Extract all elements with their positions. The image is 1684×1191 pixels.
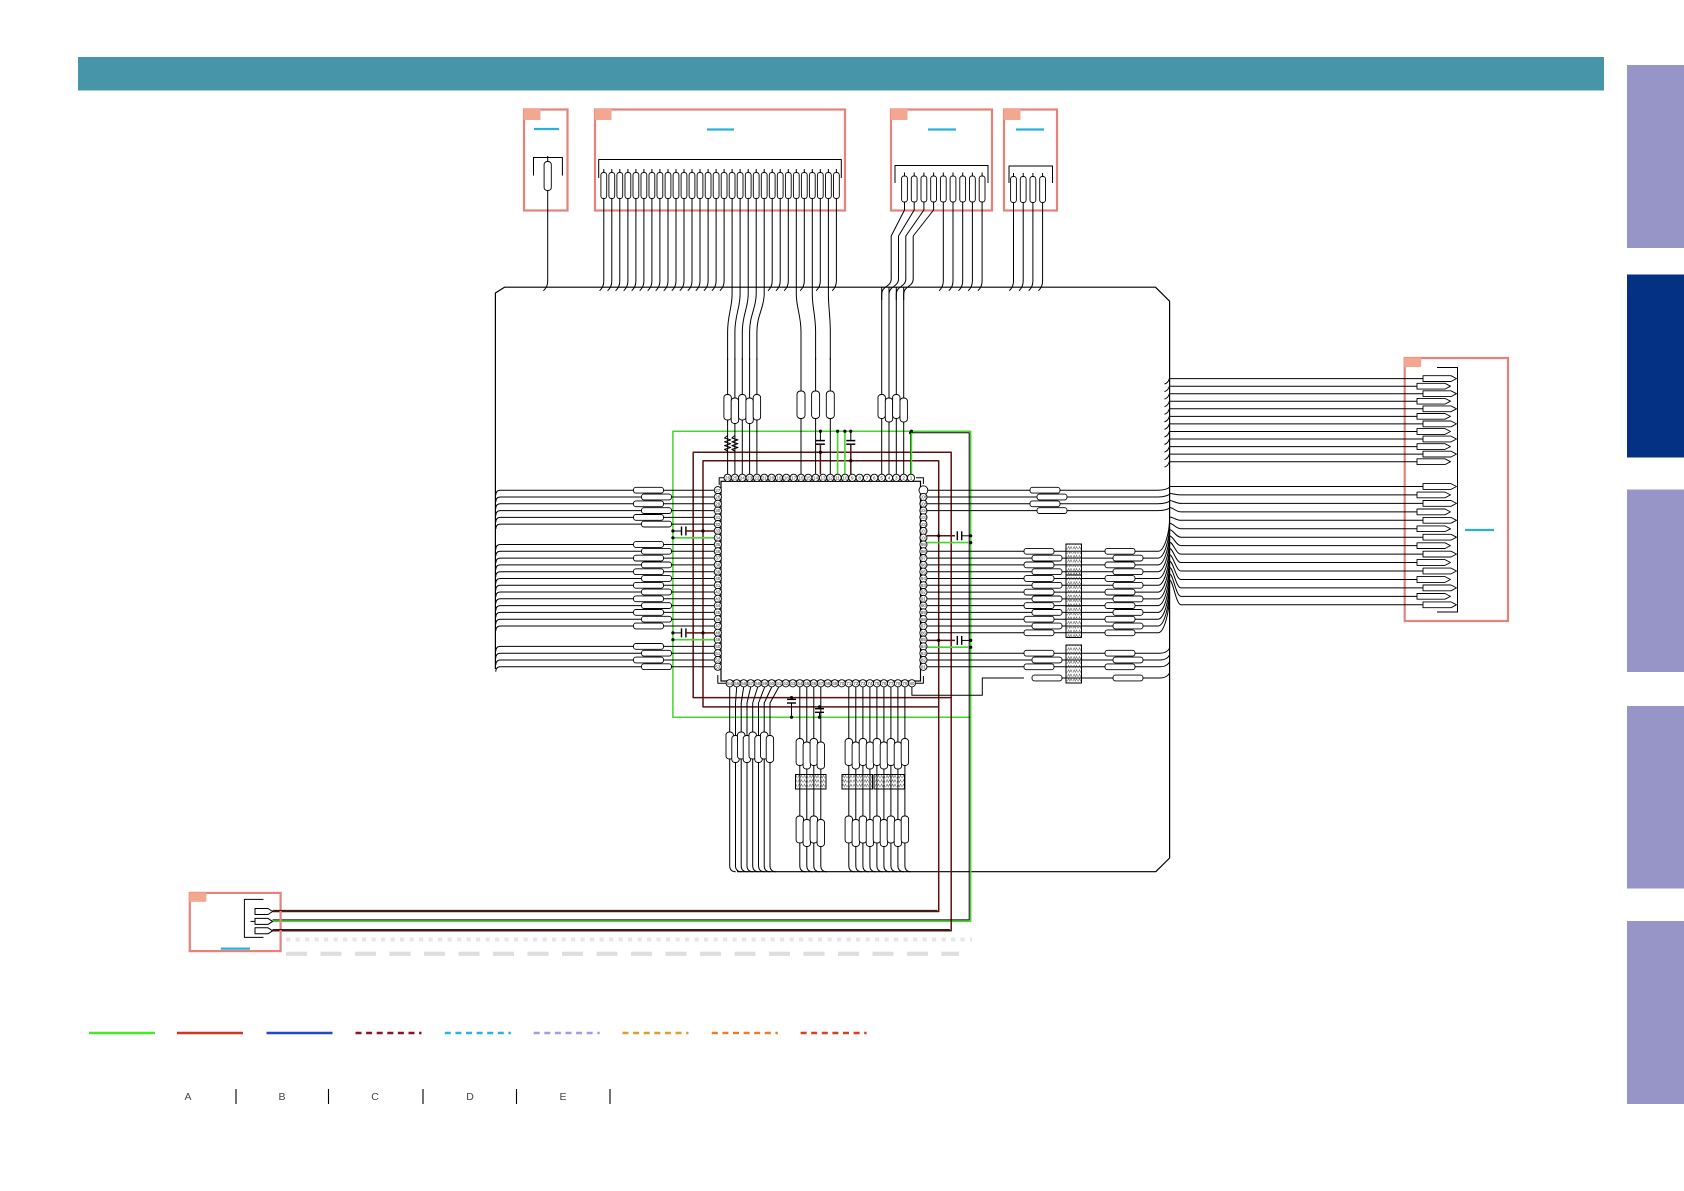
svg-text:82: 82 [921,658,927,663]
IC U1 corner marks [718,478,924,684]
svg-text:94: 94 [921,576,927,581]
connector CN3 box [891,110,992,211]
svg-text:21: 21 [762,475,768,480]
svg-text:70: 70 [839,681,845,686]
svg-text:55: 55 [734,681,740,686]
svg-text:D: D [466,1091,474,1103]
svg-text:22: 22 [754,475,760,480]
svg-text:37: 37 [715,556,721,561]
svg-text:86: 86 [921,630,927,635]
svg-text:99: 99 [921,542,927,547]
connector CN2 bracket [599,160,842,179]
wires IC right top group with resistors [927,487,1170,514]
wires IC bottom group D2 with resistors and network [796,687,827,872]
svg-text:46: 46 [715,617,721,622]
svg-text:53: 53 [715,664,721,669]
svg-text:102: 102 [920,522,928,527]
svg-text:49: 49 [715,637,721,642]
svg-text:72: 72 [853,681,859,686]
connector CN1 box [524,110,568,211]
svg-text:87: 87 [921,624,927,629]
svg-text:50: 50 [715,644,721,649]
IC U1 pin circles bottom [726,680,915,687]
capacitor C2 top [846,430,855,475]
wire CN1 to board [543,191,547,291]
connector CN1 link [534,128,559,130]
svg-text:18: 18 [784,475,790,480]
svg-text:47: 47 [715,624,721,629]
svg-text:40: 40 [715,576,721,581]
svg-text:30: 30 [715,508,721,513]
svg-text:63: 63 [790,681,796,686]
capacitor C4 left [671,628,714,637]
svg-text:2: 2 [902,475,905,480]
svg-text:45: 45 [715,610,721,615]
wires CN2 to board edge [600,199,837,361]
svg-text:33: 33 [715,529,721,534]
svg-text:13: 13 [820,475,826,480]
svg-text:1: 1 [910,475,913,480]
legend line styles [89,1032,867,1034]
resistors R-top group B [878,287,907,474]
svg-text:74: 74 [867,681,873,686]
svg-text:83: 83 [921,651,927,656]
svg-text:24: 24 [740,475,746,480]
svg-text:26: 26 [725,475,731,480]
sidebar tab 3 [1627,490,1684,673]
svg-text:92: 92 [921,590,927,595]
wires IC right lower group [912,648,1170,695]
svg-text:34: 34 [715,535,721,540]
svg-text:95: 95 [921,569,927,574]
resistors left bank L3 and wires [496,644,714,672]
svg-text:58: 58 [755,681,761,686]
capacitor C3 left [671,527,714,536]
svg-text:14: 14 [813,475,819,480]
net VSS maroon loop B [273,452,952,931]
svg-text:97: 97 [921,556,927,561]
sidebar tab 2 active [1627,275,1684,458]
svg-text:19: 19 [776,475,782,480]
green stubs to IC pins left [671,536,714,641]
connector CN5 link [1465,529,1494,531]
net VCC maroon loop A [273,461,939,912]
svg-text:16: 16 [798,475,804,480]
resistors R-top singles [797,358,834,474]
connector CN3 bracket [895,166,988,184]
svg-text:23: 23 [747,475,753,480]
svg-text:9: 9 [851,475,854,480]
svg-text:98: 98 [921,549,927,554]
svg-text:10: 10 [842,475,848,480]
svg-text:81: 81 [921,664,927,669]
black companions CN6 maroon wires [273,910,950,929]
wires IC right mid group with resistors [927,517,1170,636]
svg-text:64: 64 [797,681,803,686]
connector CN1 symbol [534,158,563,176]
svg-text:54: 54 [727,681,733,686]
svg-text:4: 4 [888,475,891,480]
svg-text:78: 78 [895,681,901,686]
svg-text:103: 103 [920,515,928,520]
svg-text:80: 80 [909,681,915,686]
svg-text:84: 84 [921,644,927,649]
net VDD green loop [273,431,971,921]
connector CN4 box [1004,110,1057,211]
svg-text:56: 56 [741,681,747,686]
svg-text:42: 42 [715,590,721,595]
svg-text:79: 79 [902,681,908,686]
connector CN6 link [221,947,250,949]
board outline [495,287,1169,872]
svg-text:89: 89 [921,610,927,615]
svg-text:15: 15 [806,475,812,480]
connector CN2 pins [601,169,839,199]
grid reference letters [184,1089,610,1104]
svg-text:48: 48 [715,630,721,635]
connector CN5 box [1404,358,1508,622]
svg-text:71: 71 [846,681,852,686]
svg-text:E: E [559,1091,566,1103]
svg-text:43: 43 [715,596,721,601]
wires board to CN5 group2 [1170,487,1423,605]
connector CN5 pins group2 [1417,484,1457,608]
IC U1 pin circles left [714,487,721,671]
resistors left bank L2 and wires [496,542,714,631]
connector CN6 box [189,892,280,951]
faint tag row lower [286,952,959,956]
svg-text:75: 75 [874,681,880,686]
svg-text:44: 44 [715,603,721,608]
svg-text:29: 29 [715,501,721,506]
connector CN2 box [595,110,845,211]
svg-text:93: 93 [921,583,927,588]
svg-text:59: 59 [762,681,768,686]
svg-text:12: 12 [828,475,834,480]
svg-text:57: 57 [748,681,754,686]
svg-text:76: 76 [881,681,887,686]
resistor network RN right mid [1066,544,1082,638]
IC U1 pin circles top [724,474,915,481]
svg-text:C: C [371,1091,379,1103]
svg-text:101: 101 [920,529,928,534]
svg-text:B: B [278,1091,285,1103]
capacitor C8 bottom [815,705,824,719]
resistor network RN right lower [1066,645,1082,683]
capacitor C6 right [927,636,972,645]
resistor zigzags RZ1 RZ2 [725,436,739,452]
svg-text:36: 36 [715,549,721,554]
svg-text:25: 25 [732,475,738,480]
svg-text:85: 85 [921,637,927,642]
svg-text:69: 69 [832,681,838,686]
wires board to CN5 group1 [1165,379,1424,468]
svg-text:73: 73 [860,681,866,686]
wires CN4 to board edge [1009,203,1042,291]
wires IC bottom group D3 with resistors and networks [845,687,911,872]
svg-text:68: 68 [825,681,831,686]
svg-text:17: 17 [791,475,797,480]
svg-text:96: 96 [921,563,927,568]
svg-text:62: 62 [783,681,789,686]
svg-text:27: 27 [715,488,721,493]
capacitor C5 right [927,531,972,540]
capacitor C1 top [816,430,825,475]
svg-text:67: 67 [818,681,824,686]
connector CN2 link [707,128,734,130]
connector CN6 bracket [244,899,263,937]
svg-text:61: 61 [776,681,782,686]
connector CN6 pins [251,909,273,934]
svg-text:11: 11 [835,475,840,480]
capacitor C7 bottom [787,696,796,719]
connector CN3 link [928,128,956,130]
svg-text:91: 91 [921,597,927,602]
connector CN3 pins [902,173,985,203]
svg-text:A: A [184,1091,191,1103]
black companion net line [273,431,970,920]
svg-text:100: 100 [920,535,928,540]
green stubs to IC pins right [927,541,972,649]
svg-text:3: 3 [895,475,898,480]
connector CN4 link [1016,128,1044,130]
connector CN5 bracket [1437,368,1458,613]
svg-text:66: 66 [811,681,817,686]
header bar [78,57,1604,91]
svg-text:5: 5 [880,475,883,480]
connector CN4 pins [1011,173,1046,203]
svg-text:52: 52 [715,658,721,663]
svg-text:31: 31 [715,515,721,520]
resistors R-array top group A [724,358,761,474]
connector CN5 pins group1 [1417,376,1457,465]
svg-text:39: 39 [715,569,721,574]
svg-text:90: 90 [921,603,927,608]
svg-text:51: 51 [715,651,721,656]
IC U1 body [721,481,921,681]
svg-text:7: 7 [866,475,869,480]
wires CN3 to board edge [882,202,982,300]
faint tag row upper [286,938,972,942]
svg-text:77: 77 [888,681,894,686]
svg-text:65: 65 [804,681,810,686]
svg-text:106: 106 [920,495,928,500]
sidebar tab 4 [1627,706,1684,889]
sidebar tab 1 [1627,65,1684,248]
sidebar tab 5 [1627,921,1684,1104]
svg-text:8: 8 [858,475,861,480]
connector CN4 bracket [1009,166,1053,183]
svg-text:38: 38 [715,563,721,568]
svg-text:32: 32 [715,522,721,527]
svg-text:35: 35 [715,542,721,547]
svg-text:6: 6 [873,475,876,480]
svg-text:28: 28 [715,495,721,500]
svg-text:20: 20 [769,475,775,480]
svg-text:104: 104 [920,508,928,513]
green stubs to IC pins top [836,430,913,475]
IC U1 pin circles right [919,486,928,671]
resistors left bank L1 and wires [496,487,714,529]
wires IC bottom group D1 with resistors [726,687,779,872]
svg-text:60: 60 [769,681,775,686]
svg-text:88: 88 [921,617,927,622]
svg-text:41: 41 [715,583,721,588]
svg-text:105: 105 [920,501,928,506]
